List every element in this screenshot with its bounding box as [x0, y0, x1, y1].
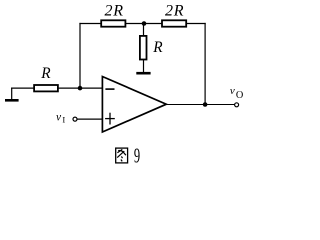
wire ground stub left	[11, 88, 13, 101]
op-amp minus sign	[105, 88, 114, 90]
wire inverting input	[11, 87, 102, 89]
wire from top junction to R3	[143, 24, 145, 37]
terminal vI circle	[73, 117, 77, 121]
svg-text:R: R	[152, 39, 163, 56]
svg-text:O: O	[236, 90, 244, 101]
wire top rail between resistors	[126, 23, 162, 25]
node junction dot top (feedback/R3)	[142, 21, 147, 26]
svg-text:2R: 2R	[105, 3, 124, 20]
resistor R2 (2R, top-right horizontal)	[162, 20, 186, 26]
wire top rail right segment	[186, 23, 206, 25]
resistor R4 (R, left input)	[34, 85, 58, 91]
wire left feedback vertical	[79, 23, 81, 88]
svg-text:I: I	[62, 115, 65, 125]
resistor R3 (R, vertical middle)	[140, 36, 147, 60]
node junction dot output	[203, 102, 208, 107]
svg-text:9: 9	[134, 143, 140, 167]
node junction dot inverting input	[78, 86, 83, 91]
ground (middle, under R3)	[136, 72, 150, 75]
terminal vO circle	[235, 103, 239, 107]
wire from R3 to middle ground	[143, 60, 145, 73]
op-amp plus sign	[105, 118, 115, 120]
wire output	[166, 104, 234, 106]
caption glyph 图 (drawn)	[116, 148, 128, 163]
op-amp U1 triangle	[102, 77, 166, 133]
svg-text:R: R	[40, 65, 51, 82]
svg-text:v: v	[230, 85, 235, 97]
wire right feedback vertical	[204, 23, 206, 105]
wire non-inverting input	[77, 118, 102, 120]
resistor R1 (2R, top-left horizontal)	[101, 20, 125, 26]
svg-text:2R: 2R	[165, 3, 184, 20]
svg-text:v: v	[56, 112, 62, 124]
caption digit 9	[134, 143, 140, 167]
ground (left)	[5, 99, 19, 102]
wire top rail left segment	[79, 23, 101, 25]
